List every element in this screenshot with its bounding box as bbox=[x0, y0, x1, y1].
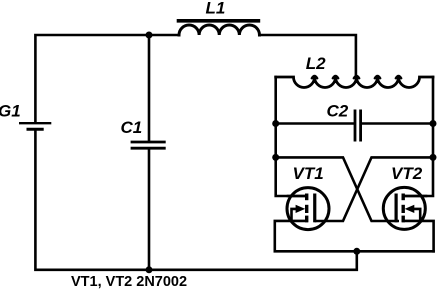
svg-text:VT2: VT2 bbox=[391, 164, 423, 183]
transistor VT2 source lead to right rail down bbox=[403, 221, 433, 251]
wire node A to L1 bbox=[149, 34, 179, 37]
wire C2 left bbox=[276, 122, 354, 125]
capacitor C2 bbox=[355, 110, 361, 142]
bottom rail wire bbox=[149, 251, 357, 269]
inductor L1 winding bbox=[179, 25, 259, 35]
node A junction dot bbox=[146, 32, 153, 39]
transistor VT1 body circle bbox=[287, 188, 329, 230]
wire node A down to C1 bbox=[148, 35, 151, 141]
svg-text:L2: L2 bbox=[306, 54, 326, 73]
transistor VT1 gate bar bbox=[313, 194, 316, 223]
inductor L1 core bar bbox=[179, 19, 259, 23]
capacitor C1 bbox=[131, 142, 166, 148]
svg-text:C1: C1 bbox=[121, 118, 143, 137]
battery G1 bbox=[19, 123, 51, 129]
transistor VT2 channel segments bbox=[402, 194, 405, 223]
svg-text:G1: G1 bbox=[0, 102, 21, 121]
node C2-right junction dot bbox=[430, 120, 437, 127]
node B junction dot on bottom rail bbox=[146, 266, 153, 273]
wire left rail L2 to VT1 drain bbox=[276, 77, 305, 196]
svg-text:C2: C2 bbox=[327, 102, 349, 121]
transistor VT1 substrate lead and arrow bbox=[292, 209, 298, 221]
wire L1 to L2 center tap bbox=[260, 35, 356, 75]
transistor VT2 drain lead bbox=[405, 195, 426, 198]
transistor VT1 source lead to left rail down bbox=[275, 221, 434, 251]
node source rail junction dot bbox=[353, 248, 360, 255]
transistor VT2 gate bar bbox=[395, 194, 398, 223]
wire cross-coupling right rail to VT1 gate bbox=[316, 157, 433, 221]
node cross-right junction dot bbox=[430, 154, 437, 161]
wire battery negative to bottom rail bbox=[35, 131, 149, 270]
transistor VT2 body circle bbox=[383, 187, 425, 229]
wire C1 to bottom rail bbox=[148, 150, 151, 270]
transistor VT2 substrate lead and arrow bbox=[414, 209, 420, 221]
svg-text:VT1: VT1 bbox=[293, 164, 324, 183]
svg-text:VT1, VT2 2N7002: VT1, VT2 2N7002 bbox=[71, 274, 187, 290]
node C2-left junction dot bbox=[272, 120, 279, 127]
node cross-left junction dot bbox=[272, 154, 279, 161]
wire C2 right bbox=[362, 122, 433, 125]
wire cross-coupling left rail to VT2 gate bbox=[276, 157, 398, 221]
inductor L2 winding cusp pips bbox=[312, 76, 401, 78]
transistor VT1 channel segments bbox=[305, 194, 308, 223]
svg-text:L1: L1 bbox=[206, 0, 226, 18]
transistor VT1 drain lead bbox=[288, 195, 305, 198]
inductor L2 winding bbox=[276, 77, 433, 88]
wire battery positive to top-left corner and node A bbox=[35, 35, 149, 123]
wire right rail L2 to VT2 drain bbox=[405, 77, 433, 196]
